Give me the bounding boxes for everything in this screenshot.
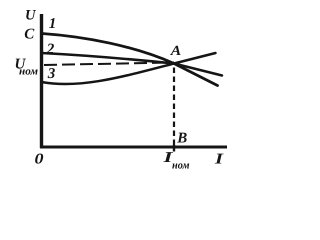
svg-text:A: A (170, 44, 182, 59)
svg-text:ном: ном (19, 65, 38, 77)
svg-text:3: 3 (47, 66, 56, 82)
tick at I nom (173, 145, 175, 152)
svg-text:B: B (176, 130, 187, 146)
y-axis U (40, 14, 43, 148)
svg-text:ном: ном (172, 159, 190, 171)
curve 2 (42, 53, 223, 76)
svg-text:C: C (24, 27, 35, 43)
svg-text:0: 0 (35, 152, 45, 168)
dashed vertical I nom line (173, 68, 175, 147)
svg-text:2: 2 (46, 41, 55, 57)
dashed U nom level line (44, 63, 174, 66)
curve 1 (42, 34, 218, 86)
svg-text:1: 1 (49, 16, 57, 32)
svg-text:U: U (25, 8, 37, 24)
curve 3 (42, 53, 216, 84)
x-axis I (40, 146, 227, 149)
svg-text:I: I (214, 152, 225, 168)
